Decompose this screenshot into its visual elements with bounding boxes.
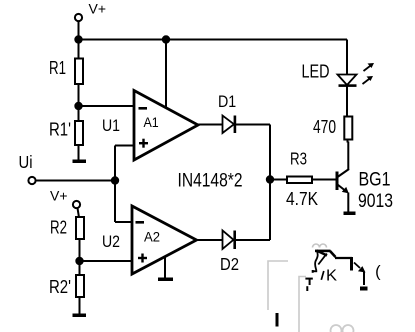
wire R2 bottom lead [79, 239, 81, 261]
op-amp U1 A1 [134, 91, 198, 161]
svg-text:D2: D2 [220, 254, 239, 274]
remnant wire to contact [335, 257, 352, 259]
wire A2 output [195, 239, 223, 241]
resistor R1 [75, 59, 83, 85]
ground (A2) [158, 278, 173, 282]
wire summing vertical [269, 125, 271, 241]
svg-text:R1: R1 [49, 57, 66, 78]
wire 470 to collector [347, 140, 349, 143]
label 9013 [358, 191, 393, 212]
label U2 [102, 232, 120, 251]
remnant black tick bottom [276, 313, 279, 327]
wire R2' bottom lead [79, 297, 81, 315]
label V+ (top) [89, 2, 107, 17]
wire R2' top lead [79, 261, 81, 276]
remnant ground square [360, 287, 368, 291]
svg-text:470: 470 [313, 117, 336, 137]
svg-text:U1: U1 [102, 116, 120, 135]
wire divider to A1 inverting input [79, 105, 135, 107]
LED light arrows [363, 63, 375, 84]
node junction divider R1/R1' [74, 102, 82, 110]
remnant contact arrow [354, 263, 366, 273]
svg-text:D1: D1 [218, 92, 236, 111]
wire A2 negative supply stub [164, 256, 166, 278]
resistor 470 [344, 117, 352, 140]
label U1 [102, 116, 120, 135]
label K [321, 268, 337, 285]
label R3 [290, 149, 307, 169]
wire to A2 inverting input [115, 221, 133, 223]
label R1 [49, 57, 66, 78]
wire R1 top lead [78, 40, 80, 60]
label A1 [144, 114, 159, 130]
remnant gray circles bottom [331, 325, 354, 332]
node junction top rail at op-amp supply [162, 35, 170, 43]
svg-text:R2': R2' [49, 276, 71, 297]
label 4.7K [286, 189, 318, 209]
remnant wire below contact [363, 272, 365, 285]
label D1 [218, 92, 236, 111]
ground (emitter BG1) [344, 212, 356, 216]
wire R1' top lead [78, 106, 80, 122]
wire top rail down to LED [346, 40, 348, 76]
svg-text:R2: R2 [50, 217, 67, 238]
wire junction to R3 [270, 179, 288, 181]
label D2 [220, 254, 239, 274]
svg-text:(: ( [375, 264, 381, 281]
svg-text:V+: V+ [50, 189, 68, 204]
wire D2 cathode to summing node [236, 239, 270, 241]
wire top rail [79, 39, 348, 41]
wire to A1 non-inverting input [115, 145, 134, 147]
svg-text:A1: A1 [144, 114, 159, 130]
label R1' [49, 119, 71, 140]
remnant armature spring [313, 251, 318, 273]
wire D1 cathode to summing node [236, 124, 270, 126]
svg-text:A2: A2 [144, 229, 160, 245]
label A2 [144, 229, 160, 245]
svg-text:9013: 9013 [358, 191, 393, 212]
node junction Ui bus [111, 176, 119, 184]
node junction top-left [74, 35, 82, 43]
svg-text:V+: V+ [89, 2, 107, 17]
remnant relay armature plate [315, 251, 336, 258]
remnant bracket ( [375, 264, 381, 281]
node junction divider R2/R2' [75, 257, 83, 265]
svg-text:LED: LED [302, 61, 330, 82]
wire R1' bottom lead [78, 145, 80, 160]
svg-text:R1': R1' [49, 119, 71, 140]
label R2 [50, 217, 67, 238]
remnant contact bar [350, 257, 353, 271]
svg-text:U2: U2 [102, 232, 120, 251]
label BG1 [359, 170, 391, 191]
label Ui [19, 152, 33, 172]
svg-text:Ui: Ui [19, 152, 33, 172]
svg-text:R3: R3 [290, 149, 307, 169]
node junction diode outputs / R3 [266, 175, 274, 183]
op-amp U2 A2 [132, 206, 197, 274]
remnant switch lever marks [305, 270, 313, 291]
svg-text:IN4148*2: IN4148*2 [178, 171, 243, 192]
label LED [302, 61, 330, 82]
wire Ui vertical bus [114, 146, 116, 223]
resistor R1' [75, 121, 83, 145]
ground (below R2') [73, 314, 87, 318]
wire A1 output [196, 124, 223, 126]
wire remnant (gray) corner lower right [299, 277, 306, 332]
wire R3 to base [312, 179, 336, 181]
remnant relay coil arcs (gray) [313, 244, 327, 248]
wire remnant (gray) corner near D2 [268, 261, 288, 310]
diode D1 [223, 116, 237, 134]
wire V+ terminal to top rail [78, 21, 80, 40]
wire V+ to R2 [78, 208, 80, 218]
terminal V+ top [75, 14, 82, 21]
wire LED to 470 resistor [346, 86, 348, 117]
label IN4148*2 [178, 171, 243, 192]
label V+ (lower) [50, 189, 68, 204]
ground (below R1') [73, 160, 87, 164]
terminal V+ lower [73, 201, 80, 208]
LED diode [338, 75, 357, 87]
wire A1 positive supply from top rail [165, 40, 167, 109]
transistor BG1 [336, 142, 350, 213]
diode D2 [223, 231, 237, 250]
wire R1 bottom lead [78, 84, 80, 106]
wire Ui input [36, 180, 115, 182]
resistor R2 [76, 217, 84, 239]
svg-text:K: K [326, 268, 337, 285]
svg-text:4.7K: 4.7K [286, 189, 318, 209]
resistor R2' [76, 275, 84, 297]
remnant moving contact [318, 254, 327, 265]
label 470 [313, 117, 336, 137]
svg-text:BG1: BG1 [359, 170, 391, 191]
label R2' [49, 276, 71, 297]
wire divider to A2 non-inverting input [80, 260, 133, 262]
resistor R3 [287, 177, 312, 184]
terminal Ui [28, 177, 35, 184]
